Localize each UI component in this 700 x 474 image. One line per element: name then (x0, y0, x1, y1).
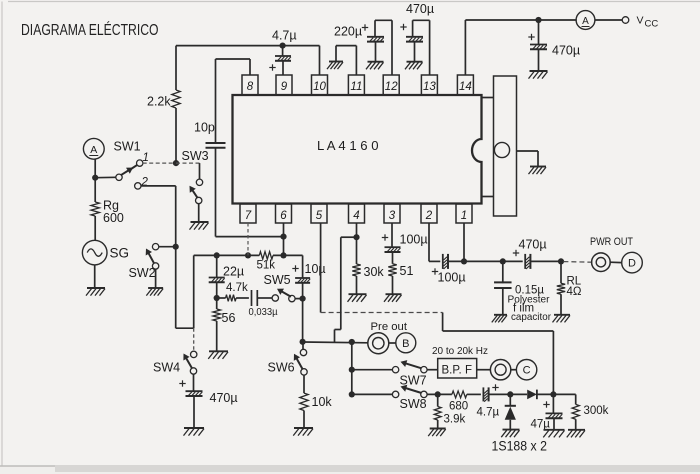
capacitor 4.7u (pin9) (282, 46, 284, 56)
wire tab to ground (517, 150, 539, 152)
node polyester tap (500, 258, 506, 264)
svg-text:10k: 10k (312, 395, 333, 409)
node 4.7u tap (280, 43, 286, 49)
switch SW6 (302, 342, 304, 350)
U1 pin 12 box (383, 75, 399, 95)
svg-text:220µ: 220µ (334, 25, 362, 39)
node SW1 tap (92, 175, 98, 181)
svg-text:9: 9 (281, 81, 288, 93)
svg-text:SW3: SW3 (182, 149, 209, 163)
wire node to SW1 pivot (95, 176, 116, 178)
U1 pin 13 box (421, 75, 437, 95)
node bus SW7 (349, 367, 355, 373)
capacitor 4.7u series (467, 393, 481, 395)
switch SW7 (392, 367, 398, 373)
svg-text:56: 56 (222, 311, 236, 325)
U1 pin 10 box (312, 75, 328, 95)
svg-text:SW2: SW2 (129, 266, 156, 280)
node pin1 out (461, 258, 467, 264)
wire SW2 to ground (155, 269, 157, 288)
svg-text:51: 51 (400, 264, 414, 278)
U1 pin 3 box (384, 204, 400, 223)
svg-text:4.7k: 4.7k (226, 282, 248, 294)
U1 pin 2 box (421, 204, 437, 223)
U1 pin 14 box (457, 75, 473, 95)
wire down from SW1-2 (175, 186, 177, 328)
wire jack to B (389, 342, 396, 344)
page bottom gray strip (0, 466, 700, 474)
ground 51 (386, 293, 402, 295)
U1 pin 5 box (311, 204, 327, 223)
node 3.9k tap (435, 391, 441, 397)
capacitor 10u (302, 255, 304, 277)
ground 10k (294, 427, 313, 429)
resistor 3.9k (437, 394, 439, 406)
svg-text:PWR OUT: PWR OUT (590, 236, 633, 248)
wire pin14 riser (464, 20, 466, 75)
svg-text:1S188 x 2: 1S188 x 2 (492, 438, 548, 454)
svg-text:SW6: SW6 (268, 361, 295, 375)
PWR OUT jack (592, 253, 611, 272)
terminal C (516, 360, 536, 380)
switch SW4 (191, 351, 197, 357)
resistor Rg 600 (91, 202, 99, 216)
svg-text:Pre out: Pre out (371, 321, 408, 333)
wire SG to ground (94, 265, 96, 288)
node supply junction (535, 17, 541, 23)
wire meter to Vcc terminal (595, 19, 622, 21)
ground 30k (349, 293, 367, 295)
capacitor 0.033u (251, 290, 253, 306)
wire SW1-2 right (141, 185, 176, 187)
wire pin12 inverted U (375, 19, 392, 21)
ground at tab (530, 166, 546, 168)
wire SW1-1 to node (143, 162, 176, 164)
resistor 680 (452, 391, 467, 398)
terminal D (622, 252, 643, 273)
node pin4 tap (353, 234, 359, 240)
svg-text:8: 8 (247, 81, 254, 93)
U1 pin 9 box (276, 75, 292, 95)
svg-text:B: B (402, 338, 409, 350)
BPF out jack (490, 360, 510, 380)
ammeter A (supply) (576, 11, 595, 30)
diode D2 1S188 (series) (527, 390, 537, 400)
resistor 10k (303, 375, 305, 393)
svg-text:4.7µ: 4.7µ (477, 407, 500, 419)
filter B.P.F box (438, 359, 477, 379)
ground D1 (503, 429, 520, 431)
wire BPF to jack (477, 369, 491, 371)
wire jack to C (511, 369, 517, 371)
svg-text:V: V (637, 15, 644, 27)
wire 10p to pin6 (215, 148, 217, 237)
ground pin11 (329, 61, 343, 63)
svg-text:470µ: 470µ (210, 391, 238, 405)
node pin7 tap (245, 252, 251, 258)
wire pin4 down (356, 223, 358, 264)
wire Vcc rail (465, 19, 576, 21)
svg-text:4: 4 (353, 210, 359, 222)
node diode tap (507, 391, 513, 397)
svg-text:4Ω: 4Ω (567, 286, 582, 298)
wire A to node (94, 159, 96, 202)
wire net B left drop (193, 255, 195, 328)
svg-text:CC: CC (645, 19, 659, 30)
svg-text:20 to 20k Hz: 20 to 20k Hz (432, 345, 488, 357)
svg-text:7: 7 (245, 210, 252, 222)
node 22u/4.7k (214, 295, 220, 301)
svg-text:1: 1 (143, 152, 149, 164)
switch SW3 (196, 179, 202, 185)
resistor R 2.2k (175, 46, 177, 90)
svg-text:13: 13 (423, 81, 436, 93)
svg-text:L A 4 1 6 0: L A 4 1 6 0 (317, 138, 379, 153)
wire pin4 to preout (341, 236, 357, 238)
node feedback tap (550, 391, 556, 397)
svg-text:A: A (90, 144, 97, 156)
node bias/SW3 (173, 160, 179, 166)
resistor 30k (352, 264, 360, 276)
wire bus to SW8 (352, 393, 393, 395)
svg-text:2.2k: 2.2k (147, 95, 171, 109)
U1 pin 11 box (348, 75, 364, 95)
node 22u tap (214, 252, 220, 258)
wire jack to D (610, 261, 622, 263)
svg-text:10: 10 (313, 81, 326, 93)
node pin6 tap (280, 252, 286, 258)
resistor 300k (575, 394, 577, 404)
resistor 56 (213, 309, 221, 321)
node bus SW8 (349, 391, 355, 397)
capacitor 47u (552, 394, 554, 413)
wire pin5 horizontal (dashed look) (321, 312, 443, 314)
svg-text:SG: SG (110, 246, 130, 261)
wire net B horizontal (194, 254, 260, 256)
switch SW8 (392, 391, 398, 397)
ground SW3 (191, 221, 209, 223)
svg-text:SW7: SW7 (400, 374, 427, 388)
wire SW7 to BPF (427, 369, 438, 371)
wire pin11 to ground (355, 46, 357, 75)
svg-text:C: C (523, 365, 531, 377)
ground 300k (568, 429, 585, 431)
U1 pin 1 box (456, 204, 472, 223)
svg-text:100µ: 100µ (438, 271, 466, 285)
wire to PWR OUT (563, 261, 592, 264)
svg-text:470µ: 470µ (406, 2, 434, 16)
capacitor 100u series (442, 254, 444, 269)
svg-text:3.9k: 3.9k (444, 414, 466, 426)
op-amp U1 LA4160 body (233, 95, 482, 204)
capacitor 10p (206, 142, 226, 144)
resistor RL 4ohm (560, 261, 562, 283)
terminal B (396, 333, 416, 353)
svg-text:4.7µ: 4.7µ (272, 29, 297, 43)
wire top bias rail (176, 45, 320, 47)
svg-text:SW8: SW8 (400, 397, 427, 411)
U1 pin 4 box (349, 204, 365, 223)
wire pin2 down (428, 223, 430, 261)
ground polyester (494, 314, 507, 316)
svg-text:0,033µ: 0,033µ (249, 306, 278, 318)
ground RL (554, 314, 570, 316)
wire SW2 to node (159, 246, 176, 248)
svg-text:1: 1 (461, 210, 467, 222)
svg-text:12: 12 (385, 81, 398, 93)
signal generator SG (82, 240, 107, 265)
capacitor 470u (SW4) (193, 374, 195, 391)
svg-text:A: A (582, 16, 589, 27)
svg-text:D: D (628, 258, 636, 270)
wire pin6 riser (283, 223, 285, 255)
svg-text:14: 14 (459, 81, 472, 93)
node SW2 tap (173, 244, 179, 250)
wire pin7 riser (247, 223, 249, 255)
switch SW2 (152, 244, 158, 250)
svg-text:DIAGRAMA ELÉCTRICO: DIAGRAMA ELÉCTRICO (21, 22, 159, 39)
svg-text:3: 3 (389, 210, 396, 222)
capacitor 100u (pin3) (385, 246, 401, 248)
node RL tap (558, 258, 564, 264)
ground 470u pin13 (407, 61, 423, 63)
U1 pin 7 box (240, 204, 256, 223)
U1 heatsink tab (494, 76, 517, 216)
svg-text:51k: 51k (257, 260, 276, 272)
node bus preout (349, 339, 355, 345)
svg-text:22µ: 22µ (223, 265, 244, 279)
U1 tab mounting hole (494, 142, 509, 157)
svg-text:600: 600 (103, 211, 124, 225)
ground supply cap (530, 70, 548, 72)
svg-text:capacitor: capacitor (511, 311, 551, 323)
capacitor 220u (pin12) (367, 36, 384, 38)
node preamp out (300, 339, 306, 345)
U1 pin 8 box (242, 75, 258, 95)
ground 56 (209, 350, 228, 352)
svg-text:SW5: SW5 (264, 273, 291, 287)
svg-text:300k: 300k (584, 405, 609, 417)
wire pin13 inverted U (413, 19, 430, 21)
resistor 51k (259, 252, 273, 260)
svg-text:470µ: 470µ (552, 44, 580, 58)
capacitor 470u series (503, 260, 523, 262)
svg-text:6: 6 (280, 210, 287, 222)
ground 220u (368, 61, 384, 63)
switch SW5 (272, 295, 278, 301)
pre out jack (368, 333, 389, 354)
svg-text:100µ: 100µ (400, 233, 428, 247)
wire pin5 down (320, 223, 322, 313)
wire pin5 jog down (442, 313, 444, 332)
wire pin8 inverted U (249, 59, 251, 75)
wire SW8 to 680 (427, 393, 452, 395)
capacitor C_dec 470u at supply (538, 20, 540, 45)
wire bus vertical (351, 342, 353, 394)
svg-text:B.P. F: B.P. F (442, 365, 472, 377)
wire pre-out row (303, 341, 368, 344)
ground 47u (544, 429, 565, 431)
wire pin3 down (391, 223, 393, 247)
wire pin1 down (463, 223, 465, 261)
svg-text:680: 680 (449, 401, 468, 413)
Vcc terminal (622, 17, 629, 24)
svg-text:470µ: 470µ (519, 238, 547, 252)
ground SW2 (148, 287, 163, 289)
U1 pin 6 box (276, 204, 292, 223)
capacitor 470u (pin13) (406, 36, 423, 38)
svg-text:2: 2 (425, 210, 433, 222)
wire SW4 feed (176, 327, 194, 329)
page frame left border (1, 2, 3, 467)
capacitor 0.15u polyester (502, 261, 504, 283)
switch SW1 (116, 174, 122, 180)
svg-text:5: 5 (316, 210, 323, 222)
wire feedback drop (552, 331, 554, 394)
node pin6 upper (280, 234, 286, 240)
svg-text:10p: 10p (194, 121, 215, 135)
svg-text:47µ: 47µ (531, 419, 551, 431)
resistor 51 (388, 264, 396, 276)
svg-text:30k: 30k (364, 265, 385, 279)
diode D1 1S188 (shunt) (509, 394, 511, 405)
capacitor 22u (216, 255, 218, 277)
wire feedback horizontal (443, 330, 554, 332)
U1 tab lower link (482, 196, 494, 198)
ground SG (87, 287, 105, 289)
wire node to SW3 (176, 162, 200, 164)
ground 470u SW4 (184, 427, 204, 429)
svg-text:10µ: 10µ (305, 262, 326, 276)
wire SW3 to ground (198, 203, 200, 221)
page frame top border (8, 1, 700, 3)
wire bus to SW7 (352, 369, 393, 371)
svg-text:SW1: SW1 (114, 140, 141, 154)
svg-text:11: 11 (350, 81, 362, 93)
resistor 4.7k (217, 297, 226, 299)
ammeter A (input) (83, 138, 104, 159)
ground 3.9k (430, 428, 446, 430)
svg-text:SW4: SW4 (153, 361, 180, 375)
U1 tab upper link (482, 97, 494, 99)
node SW5 out (300, 296, 306, 302)
